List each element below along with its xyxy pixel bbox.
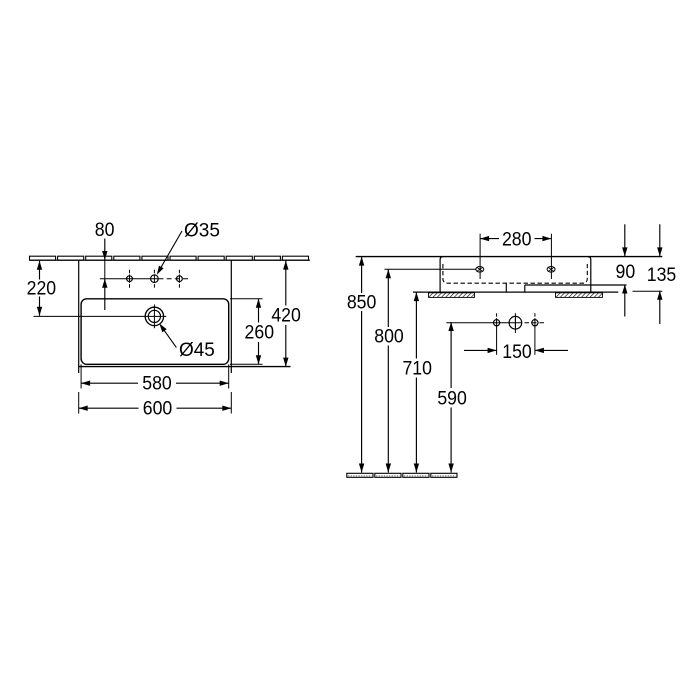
dim 135 line lower [659,291,661,324]
drain hole outer circle O45 [145,307,163,325]
dim 580 line left [81,382,138,384]
dim 260 upper arrowhead (up) [256,299,261,308]
dim 280 right extension line [550,234,552,279]
drain boss right vertical [524,285,526,292]
basin right outer edge [588,257,591,293]
dim 150 left extension [496,327,498,355]
dim 90 extension line [591,284,627,286]
800 extension line to mounting hole [385,268,476,270]
dim 220 line upper [39,261,41,280]
dim 420 line lower [285,325,287,367]
dim 850 lower arrowhead (down) [359,464,364,473]
dim 590 line upper [450,322,452,388]
dim 260 top extension line [230,298,263,300]
dim 150 left arrowhead (right) [488,348,497,353]
dim 710 line upper [415,292,417,358]
dim 800 line upper [387,269,389,327]
dim 600 right arrowhead [222,406,231,411]
dim 580 line right [176,382,229,384]
dim 600 right extension (outer edge) [230,392,232,414]
dim 280 left arrowhead [480,236,489,241]
dim 850 line upper [361,257,363,293]
dim 850 upper arrowhead (up) [359,257,364,266]
dim 135 upper arrowhead (down) [657,247,662,256]
dim 710 line lower [415,378,417,473]
svg-text:850: 850 [347,292,377,313]
basin inner bowl hidden outline (dashed) [443,264,587,283]
basin bottom line [413,291,618,293]
dim 850 line lower [361,311,363,473]
dim 420 lower arrowhead (down) [283,358,288,367]
dim 600 line right [177,407,232,409]
dim 590 line lower [450,408,452,473]
dim 580 right extension (inner edge) [228,364,230,388]
dim 420 upper arrowhead (up) [283,261,288,270]
dim 580 left arrowhead [81,381,90,386]
faucet holes side view with ticks [494,313,539,333]
dim 260 line lower [258,342,260,364]
basin inner rounded rectangle outline [81,299,229,365]
wall mounting holes (ellipses with cross) [476,267,555,273]
faucet hole centerline horizontal (solid part) [100,278,159,280]
dim 580 left extension (inner edge) [80,364,82,388]
faucet centerline horizontal (dashed) [525,322,546,324]
dim 420 line upper [285,261,287,306]
drain hole inner circle [148,310,160,322]
drain hole horizontal centerline / 220 extension [34,315,167,317]
O35 leader line [159,231,182,272]
svg-text:90: 90 [616,262,636,283]
dim 280 right arrowhead [542,236,551,241]
dim 590 upper arrowhead (up) [448,322,453,331]
svg-text:280: 280 [502,229,532,250]
dim 710 lower arrowhead (down) [414,464,419,473]
dim 150 line right [535,349,568,351]
dim 280 line right [535,238,552,240]
dim 150 line left [464,349,497,351]
dim 800 upper arrowhead (up) [386,269,391,278]
svg-text:420: 420 [271,305,301,326]
dim 90 lower arrowhead (up) [622,285,627,294]
O45 leader arrowhead [159,323,166,332]
basin outer right edge line [230,260,232,373]
floor section (tiled) [347,473,457,477]
svg-text:Ø45: Ø45 [179,340,215,361]
faucet centerline horizontal (solid) [446,322,522,324]
dim 800 line lower [387,346,389,473]
dim 220 upper arrowhead (up) [37,261,42,270]
dim 600 line left [79,407,139,409]
svg-text:80: 80 [95,220,115,241]
svg-text:800: 800 [374,327,404,348]
dim 580 right arrowhead [220,381,229,386]
drain boss left vertical [505,284,507,293]
svg-text:150: 150 [502,342,532,363]
faucet holes (left small, middle O35, right small) with center ticks [127,270,183,288]
dim 90 line lower [624,285,626,317]
dim 80 upper arrowhead (down) [102,251,107,260]
svg-text:Ø35: Ø35 [184,221,220,242]
svg-text:135: 135 [647,265,677,286]
dim 80 lower leader line [104,279,106,310]
svg-text:580: 580 [142,374,172,395]
svg-text:220: 220 [27,278,57,299]
dim 80 through line [104,260,106,279]
dim 80 upper leader line [104,239,106,261]
dim 80 lower arrowhead (up) [102,279,107,288]
dim 90 line upper [624,224,626,256]
dim 220 line lower [39,297,41,316]
basin top rim line [356,256,663,258]
dim 280 line left [480,238,499,240]
svg-text:260: 260 [245,322,275,343]
dim 150 right extension [534,327,536,355]
dim 600 left arrowhead [79,406,88,411]
dim 260 line upper [258,299,260,323]
faucet hole centerline horizontal (dashed part) [158,278,190,280]
basin left outer edge [440,257,443,293]
dim 280 left extension line [479,234,481,279]
dim 600 left extension (outer edge) [78,392,80,414]
drain hole vertical centerline [153,305,155,329]
dim 150 right arrowhead (left) [535,348,544,353]
left mounting bracket (hatched) [429,293,475,298]
dim 590 lower arrowhead (down) [448,464,453,473]
dim 135 bottom extension line [633,290,663,292]
O45 leader line [163,329,176,348]
dim 800 lower arrowhead (down) [386,464,391,473]
dim 220 lower arrowhead (down) [37,307,42,316]
svg-text:600: 600 [143,399,173,420]
svg-text:710: 710 [402,358,432,379]
basin outer left edge line [78,260,80,373]
dim 260 lower arrowhead (down) [256,355,261,364]
O35 leader arrowhead [157,266,164,275]
dim 135 lower arrowhead (up) [657,291,662,300]
svg-text:590: 590 [437,388,467,409]
basin interior step line [525,284,627,286]
basin front outer bottom line with 420 extension [79,366,291,368]
dim 90 upper arrowhead (down) [622,247,627,256]
wall section (top view, tiled) [30,256,311,260]
right mounting bracket (hatched) [556,293,603,298]
dim 710 upper arrowhead (up) [414,292,419,301]
dim 260 bottom extension line [230,363,263,365]
dim 135 line upper [659,224,661,256]
